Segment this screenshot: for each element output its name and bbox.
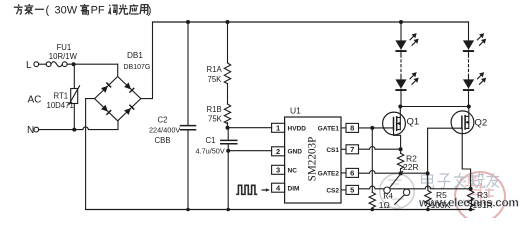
svg-text:151R: 151R xyxy=(473,200,493,210)
svg-text:1Ω: 1Ω xyxy=(379,200,390,210)
svg-text:HVDD: HVDD xyxy=(288,125,307,132)
svg-text:R4: R4 xyxy=(383,191,394,201)
svg-text:N: N xyxy=(27,125,34,136)
svg-text:GATE1: GATE1 xyxy=(318,125,340,132)
svg-text:1: 1 xyxy=(276,124,280,133)
svg-text:224/400V: 224/400V xyxy=(149,126,180,135)
svg-text:RT1: RT1 xyxy=(54,91,69,100)
svg-text:): ) xyxy=(148,5,152,17)
svg-text:DIM: DIM xyxy=(288,185,300,192)
svg-text:(: ( xyxy=(46,5,50,17)
svg-text:Q2: Q2 xyxy=(475,118,488,129)
svg-text:R1B: R1B xyxy=(207,105,222,114)
svg-text:CBB: CBB xyxy=(155,136,171,145)
svg-text:3: 3 xyxy=(276,166,280,175)
svg-text:7: 7 xyxy=(350,145,354,154)
svg-text:AC: AC xyxy=(28,95,42,106)
svg-text:6: 6 xyxy=(350,169,354,178)
svg-text:CS1: CS1 xyxy=(326,147,339,154)
svg-text:U1: U1 xyxy=(290,106,301,116)
svg-text:C2: C2 xyxy=(158,116,168,125)
svg-text:30W: 30W xyxy=(55,5,78,17)
svg-text:5: 5 xyxy=(350,186,354,195)
svg-text:100K: 100K xyxy=(431,200,451,210)
svg-text:SM2203P: SM2203P xyxy=(307,137,319,182)
svg-text:R1A: R1A xyxy=(207,65,223,74)
svg-text:R3: R3 xyxy=(477,190,488,200)
svg-text:C1: C1 xyxy=(206,136,216,145)
svg-text:GND: GND xyxy=(288,148,303,155)
svg-text:10D471: 10D471 xyxy=(47,101,74,110)
svg-text:PF: PF xyxy=(91,5,105,17)
svg-text:R5: R5 xyxy=(436,190,447,200)
svg-text:NC: NC xyxy=(288,168,298,175)
svg-text:DB1: DB1 xyxy=(127,51,143,60)
svg-text:22R: 22R xyxy=(403,162,419,172)
svg-text:CS2: CS2 xyxy=(326,187,339,194)
svg-text:75K: 75K xyxy=(208,75,223,84)
svg-text:GATE2: GATE2 xyxy=(318,170,340,177)
svg-text:10R/1W: 10R/1W xyxy=(49,52,78,61)
svg-text:75K: 75K xyxy=(208,115,223,124)
svg-text:4.7u/50V: 4.7u/50V xyxy=(196,146,225,155)
svg-text:2: 2 xyxy=(276,147,280,156)
svg-text:Q1: Q1 xyxy=(407,117,420,128)
svg-text:8: 8 xyxy=(350,124,354,133)
svg-text:L: L xyxy=(26,60,32,71)
svg-text:DB107G: DB107G xyxy=(124,64,151,71)
